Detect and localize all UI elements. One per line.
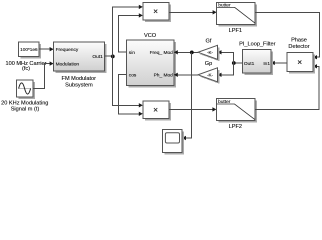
wire Out1 up to product1 input1 [112, 5, 143, 57]
svg-text:Phase: Phase [291, 38, 307, 44]
svg-text:Out1: Out1 [92, 54, 103, 60]
wire product1 to LPF1 [169, 10, 217, 14]
svg-text:100*1e6: 100*1e6 [20, 47, 38, 52]
wire Phase Detector out to PI In1 [271, 61, 287, 65]
junction Gf out to scope [190, 51, 194, 55]
wire Out1 down to product2 input1 [112, 56, 143, 107]
svg-text:LPF1: LPF1 [229, 28, 242, 34]
label 20 KHz Modulating Signal m (t) [1, 100, 48, 112]
PI_Loop_Filter block [243, 50, 273, 76]
LPF2 block [216, 99, 257, 123]
wire LPF2 to Phase Detector input2 [255, 64, 319, 109]
svg-text:Gf: Gf [206, 38, 212, 44]
svg-text:-K-: -K- [207, 50, 214, 55]
svg-text:Gp: Gp [205, 61, 212, 67]
svg-text:cos: cos [129, 73, 137, 78]
svg-text:Signal m (t): Signal m (t) [11, 107, 40, 113]
junction Out1 split [111, 55, 115, 59]
svg-text:Ph_ Mod: Ph_ Mod [154, 72, 174, 78]
svg-text:VCO: VCO [144, 33, 157, 39]
wire junction up to gain Gf [218, 50, 234, 63]
label Phase Detector [288, 38, 309, 50]
svg-text:Subsystem: Subsystem [65, 83, 93, 89]
svg-text:Frequency: Frequency [56, 47, 79, 53]
svg-text:FM Modulator: FM Modulator [62, 76, 97, 82]
svg-text:PI_Loop_Filter: PI_Loop_Filter [239, 41, 276, 47]
svg-text:20 KHz Modulating: 20 KHz Modulating [1, 100, 48, 106]
sine wave source block [17, 80, 35, 99]
VCO block [127, 40, 176, 87]
wire Gp out to VCO Ph_Mod [174, 73, 198, 77]
wire VCO cos to product2 input2 [119, 75, 143, 116]
wire LPF1 to Phase Detector input1 [255, 12, 319, 59]
wire PI Out1 to junction [233, 62, 242, 64]
svg-text:Out1: Out1 [244, 61, 255, 67]
scope block [163, 130, 184, 155]
svg-text:Modulation: Modulation [56, 61, 80, 67]
Phase Detector block [287, 53, 315, 74]
label FM Modulator Subsystem [62, 76, 97, 89]
svg-text:Freq_ Mod: Freq_ Mod [150, 50, 174, 56]
svg-text:In1: In1 [263, 61, 270, 67]
svg-text:sin: sin [129, 50, 135, 56]
svg-text:(fc): (fc) [22, 66, 30, 72]
wire VCO sin to product1 input2 [119, 13, 143, 52]
svg-text:LPF2: LPF2 [229, 124, 242, 130]
product block 1 [143, 3, 171, 22]
junction PI out split [232, 61, 236, 65]
gain Gf triangle [198, 45, 220, 61]
gain Gp triangle [198, 68, 220, 84]
product block 2 [143, 101, 171, 120]
wire sine to FM Modulation [33, 61, 54, 88]
FM Modulator Subsystem block [54, 42, 107, 73]
wire constant to FM Frequency [39, 47, 54, 51]
constant block 100*1e6 [19, 42, 41, 58]
wire junction down to scope [182, 52, 191, 140]
LPF1 block [217, 2, 258, 26]
svg-text:Detector: Detector [288, 44, 309, 50]
wire Gf out to VCO Freq_Mod [174, 50, 198, 54]
wire product2 to LPF2 [169, 107, 216, 111]
wire junction down to gain Gp [218, 63, 234, 77]
svg-text:-K-: -K- [207, 73, 214, 78]
wire FM Out1 to junction [104, 55, 112, 57]
label 100 MHz Carrier (fc) [5, 61, 46, 72]
